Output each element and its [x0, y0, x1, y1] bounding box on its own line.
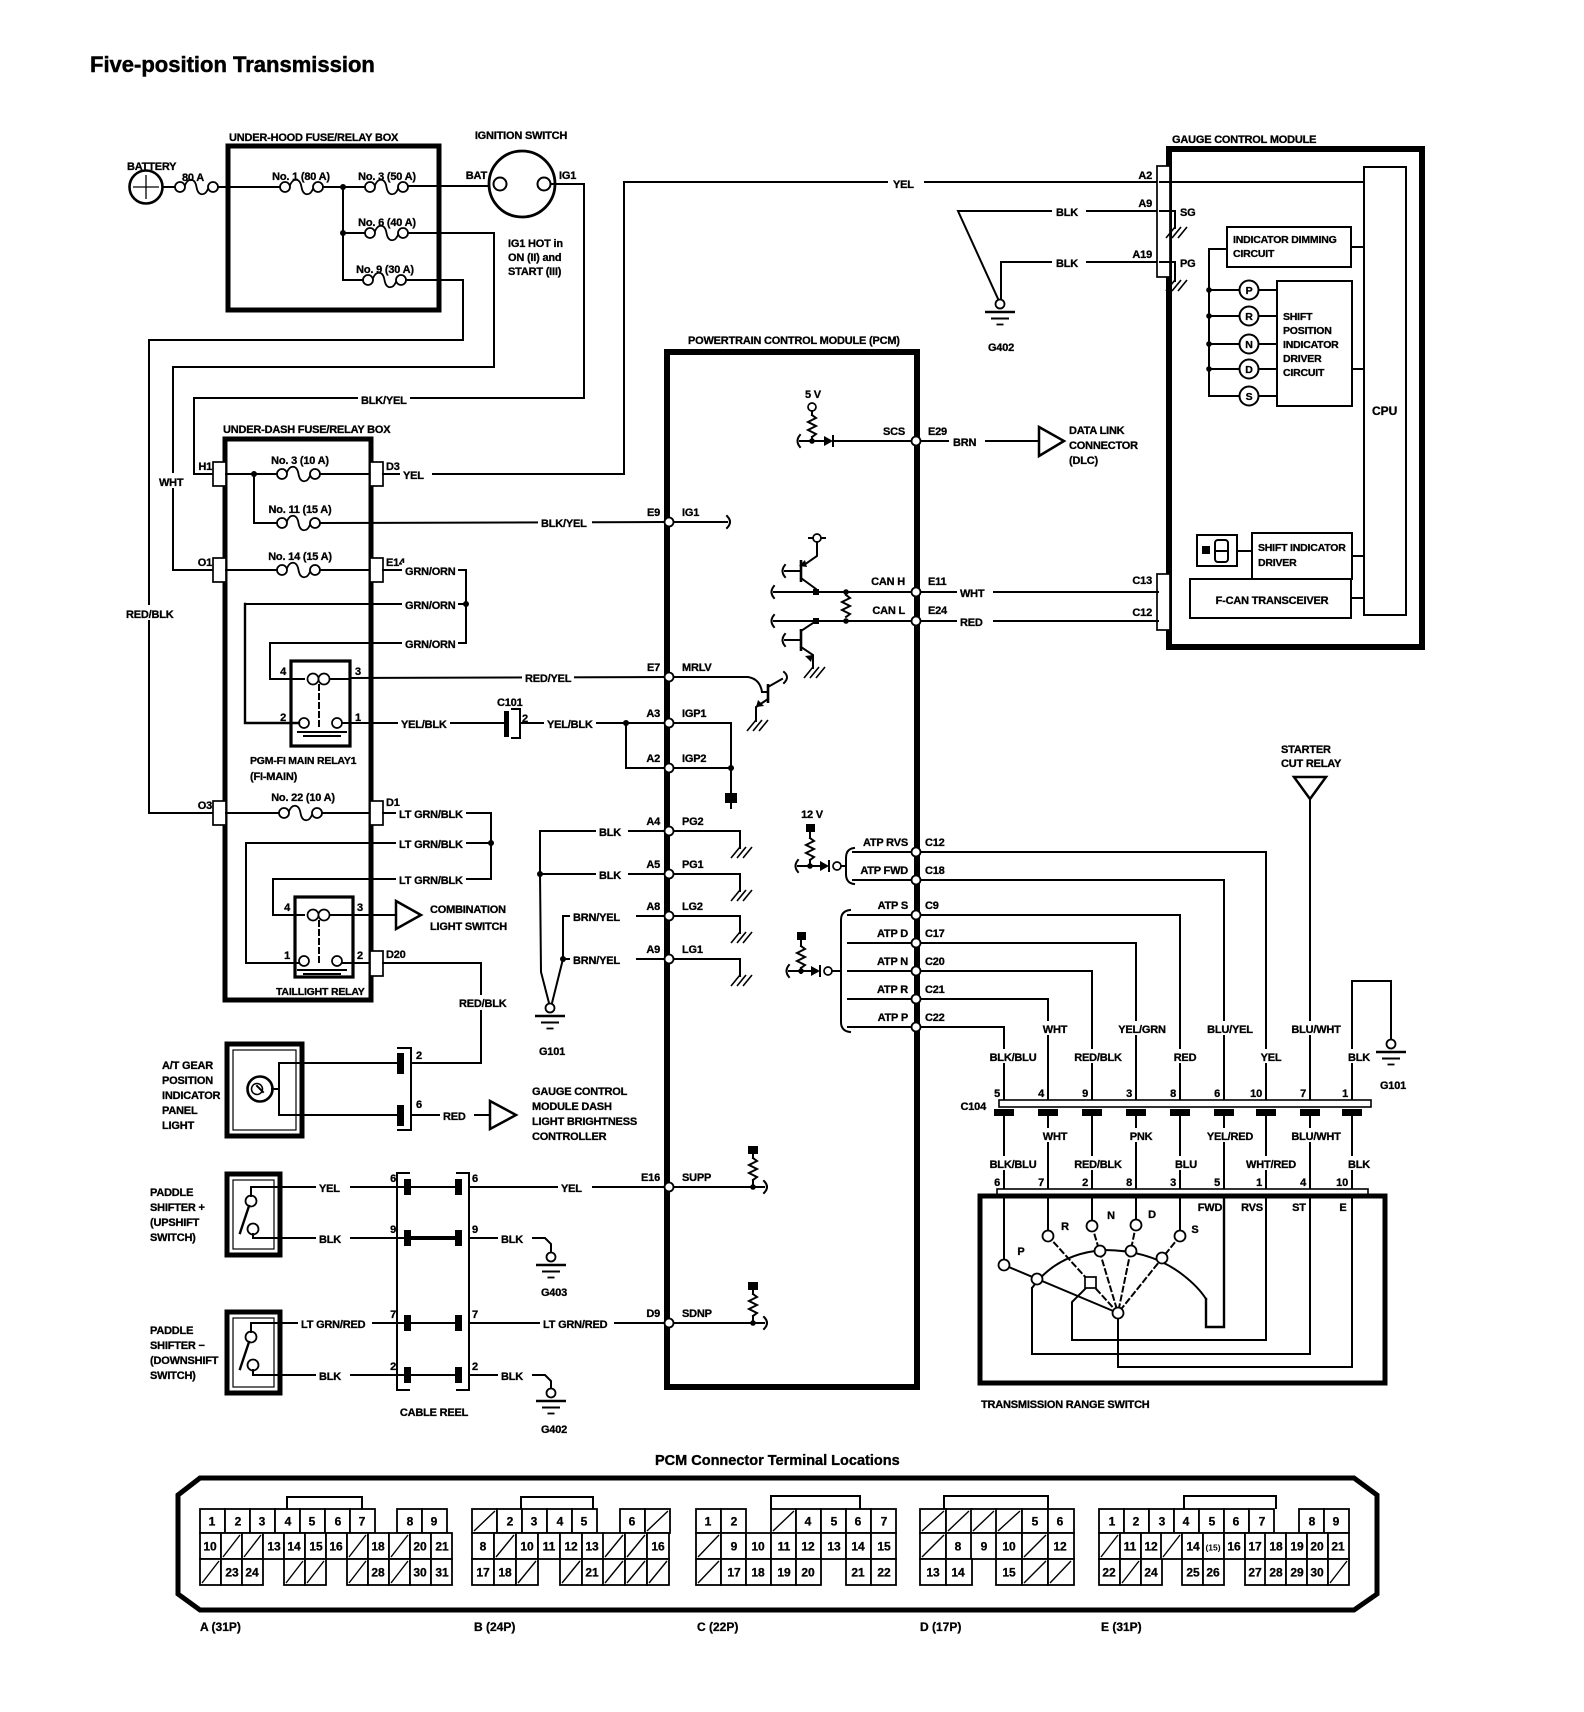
svg-text:CABLE REEL: CABLE REEL	[400, 1407, 469, 1419]
terminal H1	[198, 461, 226, 486]
wire BLK to G402	[469, 1375, 551, 1388]
indicator P	[1209, 281, 1277, 300]
svg-text:2: 2	[1082, 1177, 1088, 1189]
svg-text:28: 28	[1269, 1566, 1283, 1580]
wire YEL riser D3 to gauge A2	[624, 182, 1158, 474]
svg-text:ST: ST	[1292, 1202, 1306, 1214]
wire ST contact	[1032, 1196, 1310, 1354]
svg-text:17: 17	[727, 1566, 741, 1580]
svg-text:D20: D20	[386, 949, 406, 961]
wire N column	[1091, 1196, 1093, 1221]
transistor CAN driver lower	[783, 621, 826, 678]
svg-text:SG: SG	[1180, 207, 1196, 219]
terminal E14	[370, 557, 406, 582]
svg-text:(FI-MAIN): (FI-MAIN)	[250, 771, 298, 783]
node junction	[340, 184, 346, 190]
wire branch to No.11	[253, 474, 255, 523]
svg-text:C18: C18	[925, 865, 945, 877]
svg-text:PG1: PG1	[682, 859, 703, 871]
svg-text:RED/YEL: RED/YEL	[525, 673, 572, 685]
svg-text:PCM Connector Terminal Locatio: PCM Connector Terminal Locations	[655, 1453, 900, 1469]
pin C9 ATP S	[878, 900, 939, 912]
wire YEL/BLK to A3	[520, 722, 664, 724]
svg-text:PGM-FI MAIN RELAY1: PGM-FI MAIN RELAY1	[250, 755, 357, 767]
terminal D20	[370, 949, 406, 976]
transmission range switch	[980, 1189, 1385, 1411]
wire No.6 output to O1 drop	[173, 233, 494, 570]
contact wiper P	[1032, 1274, 1043, 1285]
svg-text:10: 10	[203, 1540, 217, 1554]
svg-text:20: 20	[413, 1540, 427, 1554]
connector C104	[961, 1088, 1372, 1116]
wire ATP N to C104 pin 9	[921, 971, 1092, 1100]
wire BLK bus to G101	[539, 831, 541, 874]
svg-text:4: 4	[805, 1515, 812, 1529]
svg-text:RED: RED	[443, 1111, 466, 1123]
connector tab A	[1157, 166, 1170, 277]
svg-text:9: 9	[731, 1540, 738, 1554]
svg-text:SWITCH): SWITCH)	[150, 1370, 196, 1382]
svg-text:CONTROLLER: CONTROLLER	[532, 1131, 607, 1143]
svg-text:13: 13	[585, 1540, 599, 1554]
gauge control module box	[1169, 134, 1422, 647]
svg-text:4: 4	[1183, 1515, 1190, 1529]
svg-text:7: 7	[881, 1515, 888, 1529]
label YEL/BLK	[544, 716, 596, 731]
svg-text:BLK/YEL: BLK/YEL	[541, 518, 587, 530]
svg-text:A3: A3	[646, 708, 660, 720]
wire driver to CPU	[1352, 368, 1364, 370]
svg-text:80 A: 80 A	[182, 172, 204, 184]
svg-text:C21: C21	[925, 984, 945, 996]
svg-text:7: 7	[472, 1309, 478, 1321]
svg-text:(DOWNSHIFT: (DOWNSHIFT	[150, 1355, 219, 1367]
label YEL/BLK	[398, 716, 450, 731]
pin E7 MRLV	[647, 662, 712, 674]
svg-text:BLK: BLK	[599, 827, 621, 839]
svg-text:3: 3	[1170, 1177, 1176, 1189]
wire A2 to CPU	[1160, 181, 1364, 183]
svg-text:S: S	[1191, 1224, 1198, 1236]
svg-text:SDNP: SDNP	[682, 1308, 712, 1320]
svg-text:2: 2	[235, 1515, 242, 1529]
svg-text:6: 6	[994, 1177, 1000, 1189]
svg-text:SHIFTER +: SHIFTER +	[150, 1202, 205, 1214]
wire LT GRN/BLK row2 to relay pin1 riser	[246, 842, 491, 844]
svg-text:12: 12	[564, 1540, 578, 1554]
svg-text:C17: C17	[925, 928, 945, 940]
wire R column	[1047, 1196, 1049, 1231]
svg-text:IG1: IG1	[559, 170, 576, 182]
wire BRN to DLC	[921, 440, 1039, 442]
wire BLK A19 to G402	[1001, 262, 1158, 299]
svg-text:BRN/YEL: BRN/YEL	[573, 955, 620, 967]
shift indicator driver box	[1252, 533, 1352, 579]
svg-text:13: 13	[267, 1540, 281, 1554]
label BLK	[1052, 255, 1086, 270]
wire BRN/YEL A8	[563, 915, 664, 917]
svg-text:3: 3	[1159, 1515, 1166, 1529]
connector tab C	[1157, 574, 1170, 630]
svg-text:C13: C13	[1132, 575, 1152, 587]
svg-text:DRIVER: DRIVER	[1258, 557, 1297, 569]
label RED/BLK	[456, 995, 508, 1010]
resistor CAN termination	[842, 595, 850, 617]
ground G402 lower	[536, 1389, 567, 1437]
pin E29 SCS	[883, 426, 947, 438]
label BLU/YEL column	[1202, 1021, 1260, 1036]
wire LT GRN/RED to D9	[469, 1322, 664, 1324]
svg-text:No. 3 (50 A): No. 3 (50 A)	[358, 171, 416, 183]
contact N	[1087, 1210, 1116, 1232]
connector grid C (22P)	[696, 1496, 896, 1634]
svg-text:No. 9 (30 A): No. 9 (30 A)	[356, 264, 414, 276]
contact RVS square	[1085, 1277, 1096, 1288]
label BLK lower	[1342, 1156, 1376, 1171]
wire relay pin3 RED/YEL to E7	[350, 677, 664, 678]
svg-text:11: 11	[1124, 1540, 1137, 1554]
svg-text:9: 9	[431, 1515, 438, 1529]
relay starter cut relay	[1281, 744, 1342, 799]
wire BRN/YEL A9	[563, 958, 664, 960]
svg-text:E: E	[1339, 1202, 1346, 1214]
svg-text:E24: E24	[928, 605, 948, 617]
svg-text:CIRCUIT: CIRCUIT	[1283, 367, 1325, 379]
indicator R	[1209, 307, 1277, 326]
svg-text:BLU: BLU	[1175, 1159, 1197, 1171]
svg-text:C104: C104	[961, 1101, 988, 1113]
svg-text:10: 10	[1336, 1177, 1348, 1189]
label GRN/ORN	[402, 563, 458, 578]
svg-text:2: 2	[1133, 1515, 1140, 1529]
svg-text:YEL: YEL	[403, 470, 424, 482]
switch paddle shifter downshift	[150, 1312, 280, 1393]
label BLK/BLU lower	[984, 1156, 1042, 1171]
svg-text:WHT: WHT	[159, 477, 184, 489]
wire N wiper dashed	[1092, 1226, 1118, 1313]
svg-text:2: 2	[357, 950, 363, 962]
svg-text:28: 28	[371, 1566, 385, 1580]
svg-text:FWD: FWD	[1198, 1202, 1223, 1214]
labels FWD RVS ST E	[1198, 1202, 1347, 1214]
svg-text:ATP RVS: ATP RVS	[863, 837, 908, 849]
label YEL/RED	[1202, 1128, 1260, 1143]
svg-text:24: 24	[1144, 1566, 1158, 1580]
wire H1 to fuse No.3	[226, 473, 279, 475]
wire BLK to cable reel 9	[280, 1237, 404, 1239]
wire dimming to CPU	[1351, 246, 1364, 248]
svg-text:LT GRN/BLK: LT GRN/BLK	[399, 875, 463, 887]
connector 8P panel light	[397, 1048, 422, 1130]
svg-text:GRN/ORN: GRN/ORN	[405, 639, 456, 651]
wire P column	[1003, 1196, 1005, 1260]
fuse No.1 (80 A)	[272, 171, 330, 194]
svg-text:19: 19	[777, 1566, 791, 1580]
fuse No.9 (30 A)	[356, 264, 414, 287]
svg-text:5: 5	[994, 1088, 1000, 1100]
pin A5 PG1	[646, 859, 752, 901]
svg-text:6: 6	[1057, 1515, 1064, 1529]
wire relay pin2 to D20	[342, 962, 370, 964]
svg-text:BLU/WHT: BLU/WHT	[1291, 1024, 1341, 1036]
svg-text:No. 14 (15 A): No. 14 (15 A)	[268, 551, 332, 563]
svg-text:PNK: PNK	[1130, 1131, 1153, 1143]
pin C12 ATP RVS	[863, 837, 945, 849]
svg-text:No. 3 (10 A): No. 3 (10 A)	[271, 455, 329, 467]
svg-text:16: 16	[329, 1540, 343, 1554]
label BLK column	[1342, 1049, 1376, 1064]
svg-text:RED: RED	[960, 617, 983, 629]
svg-text:N: N	[1245, 339, 1252, 351]
connector C101	[497, 697, 528, 738]
svg-text:7: 7	[1300, 1088, 1306, 1100]
svg-text:3: 3	[259, 1515, 266, 1529]
wire LT GRN/BLK row1	[383, 812, 491, 814]
svg-text:STARTER: STARTER	[1281, 744, 1331, 756]
svg-text:13: 13	[827, 1540, 841, 1554]
label RED column	[1167, 1049, 1203, 1064]
contact R	[1043, 1221, 1070, 1242]
svg-text:30: 30	[413, 1566, 427, 1580]
svg-text:YEL: YEL	[561, 1183, 582, 1195]
ground G101 right	[1352, 981, 1406, 1100]
svg-text:17: 17	[1248, 1540, 1262, 1554]
svg-text:6: 6	[416, 1099, 422, 1111]
svg-text:COMBINATION: COMBINATION	[430, 904, 506, 916]
resistor 12V ATP S-P	[787, 910, 913, 1032]
svg-text:D9: D9	[646, 1308, 660, 1320]
label BLK/YEL	[358, 391, 410, 407]
svg-text:1: 1	[1109, 1515, 1116, 1529]
svg-text:CONNECTOR: CONNECTOR	[1069, 440, 1138, 452]
wire LT GRN/BLK bus	[490, 813, 492, 879]
svg-text:PG2: PG2	[682, 816, 703, 828]
pin A8 LG2	[646, 901, 752, 943]
svg-text:A19: A19	[1132, 249, 1152, 261]
wire GRN/ORN row1	[383, 569, 466, 571]
svg-text:11: 11	[778, 1540, 791, 1554]
node dots on bus	[1206, 287, 1212, 293]
wire O1 to fuse No.14	[226, 569, 279, 571]
wire ATP D to C104 pin 3	[921, 943, 1136, 1100]
under-hood fuse/relay box	[228, 132, 439, 310]
svg-text:9: 9	[390, 1224, 396, 1236]
wire relay pin1	[246, 843, 299, 963]
svg-text:10: 10	[751, 1540, 765, 1554]
pin C17 ATP D	[877, 928, 945, 940]
pin circles PCM right edge	[912, 437, 921, 1032]
contact pivot	[1113, 1308, 1124, 1319]
fuse No.3 (10 A)	[271, 455, 329, 481]
wire fuse No.3 to D3	[320, 473, 370, 475]
label RED/YEL	[522, 670, 574, 685]
label RED/BLK lower	[1069, 1156, 1127, 1171]
svg-text:1: 1	[209, 1515, 216, 1529]
wire panel light pin6	[279, 1114, 397, 1116]
transistor CAN driver upper	[783, 534, 826, 592]
svg-text:17: 17	[476, 1566, 490, 1580]
svg-text:18: 18	[1269, 1540, 1283, 1554]
svg-text:15: 15	[309, 1540, 323, 1554]
svg-text:INDICATOR: INDICATOR	[1283, 339, 1339, 351]
pin A2 IGP2	[646, 753, 737, 808]
resistor 5V pull-up and SCS diode	[798, 389, 913, 447]
svg-text:3: 3	[531, 1515, 538, 1529]
pin A9 / SG	[1138, 198, 1195, 238]
svg-text:No. 1 (80 A): No. 1 (80 A)	[272, 171, 330, 183]
svg-text:INDICATOR DIMMING: INDICATOR DIMMING	[1233, 234, 1337, 246]
svg-text:R: R	[1061, 1221, 1069, 1233]
svg-text:BLK: BLK	[501, 1234, 523, 1246]
resistor 12V ATP RVS/FWD	[796, 809, 913, 884]
svg-text:12: 12	[801, 1540, 815, 1554]
svg-text:E9: E9	[647, 507, 660, 519]
wire F-CAN to CPU	[1351, 597, 1364, 599]
svg-text:SHIFT: SHIFT	[1283, 311, 1313, 323]
svg-text:SHIFT INDICATOR: SHIFT INDICATOR	[1258, 542, 1346, 554]
label WHT/RED	[1240, 1156, 1302, 1171]
wire O3 to fuse No.22	[226, 812, 281, 814]
svg-text:22: 22	[1102, 1566, 1116, 1580]
svg-text:3: 3	[1126, 1088, 1132, 1100]
svg-text:WHT/RED: WHT/RED	[1246, 1159, 1296, 1171]
svg-text:BLK: BLK	[319, 1371, 341, 1383]
svg-text:RVS: RVS	[1241, 1202, 1263, 1214]
svg-text:6: 6	[472, 1173, 478, 1185]
wire R wiper dashed	[1048, 1236, 1118, 1313]
svg-text:YEL/GRN: YEL/GRN	[1118, 1024, 1166, 1036]
connector combination light switch	[396, 901, 507, 933]
wire dimming to PRNDS bus	[1209, 249, 1227, 396]
connector grid B (24P)	[472, 1497, 670, 1634]
wire 80A fuse to under-hood box	[218, 186, 281, 188]
wire YEL to cable reel 6	[280, 1186, 404, 1188]
wire icon to driver	[1237, 550, 1252, 552]
svg-text:BRN/YEL: BRN/YEL	[573, 912, 620, 924]
wire ATP RVS to C104 pin 10	[921, 852, 1266, 1100]
contact D	[1131, 1209, 1157, 1231]
wire GRN/ORN bus down	[465, 570, 467, 643]
svg-text:BLK: BLK	[1348, 1159, 1370, 1171]
svg-text:5: 5	[581, 1515, 588, 1529]
svg-text:S: S	[1246, 391, 1253, 403]
svg-text:2: 2	[390, 1361, 396, 1373]
svg-text:E11: E11	[928, 576, 946, 588]
svg-text:A8: A8	[646, 901, 660, 913]
svg-text:WHT: WHT	[960, 588, 985, 600]
svg-text:A4: A4	[646, 816, 661, 828]
svg-text:6: 6	[629, 1515, 636, 1529]
wire fuse No.14 to E14	[320, 569, 370, 571]
connector grid D (17P)	[920, 1496, 1074, 1634]
svg-text:DRIVER: DRIVER	[1283, 353, 1322, 365]
svg-text:POSITION: POSITION	[1283, 325, 1332, 337]
svg-text:ATP N: ATP N	[877, 956, 908, 968]
svg-text:D: D	[1245, 364, 1253, 376]
svg-text:9: 9	[981, 1540, 988, 1554]
svg-text:(UPSHIFT: (UPSHIFT	[150, 1217, 200, 1229]
svg-text:BAT: BAT	[466, 170, 488, 182]
svg-text:1: 1	[284, 950, 290, 962]
svg-text:BLK: BLK	[501, 1371, 523, 1383]
label YEL/GRN column	[1114, 1021, 1172, 1036]
terminal O3	[198, 800, 226, 825]
svg-text:INDICATOR: INDICATOR	[162, 1090, 221, 1102]
svg-text:D: D	[1148, 1209, 1156, 1221]
svg-text:YEL/RED: YEL/RED	[1207, 1131, 1254, 1143]
pin C22 ATP P	[878, 1012, 945, 1024]
svg-text:SWITCH): SWITCH)	[150, 1232, 196, 1244]
svg-text:2: 2	[416, 1050, 422, 1062]
svg-text:14: 14	[1186, 1540, 1200, 1554]
svg-text:D3: D3	[386, 461, 400, 473]
svg-text:PADDLE: PADDLE	[150, 1187, 193, 1199]
wire ATP FWD to C104 pin 6	[921, 880, 1224, 1100]
svg-text:6: 6	[390, 1173, 396, 1185]
svg-text:14: 14	[951, 1566, 965, 1580]
svg-text:E (31P): E (31P)	[1101, 1620, 1142, 1634]
svg-text:G402: G402	[988, 342, 1014, 354]
svg-text:LIGHT BRIGHTNESS: LIGHT BRIGHTNESS	[532, 1116, 637, 1128]
svg-text:PG: PG	[1180, 258, 1196, 270]
svg-text:4: 4	[285, 1515, 292, 1529]
contact S	[1175, 1224, 1199, 1242]
svg-text:BLK: BLK	[319, 1234, 341, 1246]
svg-text:YEL: YEL	[893, 179, 914, 191]
CPU box	[1364, 167, 1406, 615]
resistor SDNP pull-up	[646, 1282, 767, 1329]
svg-text:R: R	[1245, 311, 1253, 323]
connector gauge dash light controller	[490, 1086, 637, 1143]
svg-text:LT GRN/BLK: LT GRN/BLK	[399, 809, 463, 821]
wire ATP R to C104 pin 4	[921, 999, 1048, 1100]
svg-text:15: 15	[1002, 1566, 1016, 1580]
terminal locations outer frame	[178, 1478, 1377, 1610]
wire No.9 output to O3 drop	[149, 280, 463, 813]
wire BLU/WHT starter relay to C104 pin 7	[1309, 799, 1311, 1100]
svg-text:LG1: LG1	[682, 944, 703, 956]
svg-text:A2: A2	[1138, 170, 1152, 182]
label PNK	[1122, 1128, 1160, 1143]
svg-text:CUT RELAY: CUT RELAY	[1281, 758, 1342, 770]
pin numbers lower row	[994, 1177, 1348, 1189]
svg-text:12 V: 12 V	[801, 809, 824, 821]
pin E11 CAN H	[871, 576, 946, 588]
label RED/BLK	[124, 605, 174, 621]
label BLK/BLU column	[984, 1049, 1042, 1064]
wire GRN/ORN row3 to relay pin4	[270, 643, 466, 679]
connector cable reel	[390, 1173, 478, 1419]
A/T gear position indicator panel light	[162, 1044, 302, 1136]
wire BLK to G403	[469, 1238, 551, 1252]
svg-text:LG2: LG2	[682, 901, 703, 913]
wire No.3 to BAT	[408, 185, 493, 187]
svg-text:8: 8	[1126, 1177, 1132, 1189]
terminal D1	[370, 797, 400, 825]
svg-text:C12: C12	[1132, 607, 1152, 619]
label YEL	[400, 467, 432, 482]
fuse No.6 (40 A)	[358, 217, 416, 240]
svg-text:TAILLIGHT RELAY: TAILLIGHT RELAY	[276, 986, 365, 998]
svg-text:6: 6	[1214, 1088, 1220, 1100]
svg-text:8: 8	[1309, 1515, 1316, 1529]
ground G101	[535, 1004, 565, 1059]
shift indicator display icon	[1197, 535, 1237, 566]
wire FWD contact	[1206, 1196, 1224, 1327]
svg-text:11: 11	[543, 1540, 556, 1554]
wire battery to 80A fuse	[163, 186, 176, 188]
svg-text:GAUGE CONTROL: GAUGE CONTROL	[532, 1086, 628, 1098]
